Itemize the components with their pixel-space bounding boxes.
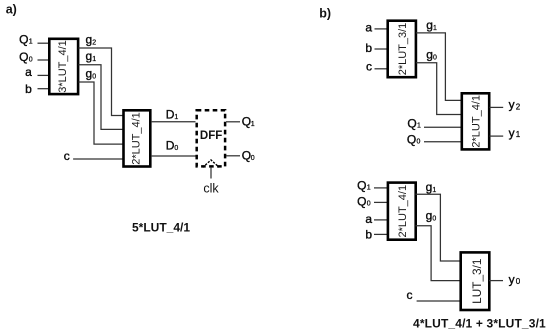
svg-text:a: a [25,65,32,79]
svg-text:c: c [407,288,413,302]
svg-text:g: g [86,33,93,47]
svg-text:2*LUT_4/1: 2*LUT_4/1 [471,95,483,148]
svg-text:Q: Q [357,179,366,193]
svg-text:0: 0 [432,215,436,222]
wire g0 from U1 to U2 pin3 [79,82,123,144]
svg-text:g: g [86,67,93,81]
node g1 (b bottom) [426,180,437,194]
svg-text:0: 0 [433,54,437,61]
wire c to U6 pin3 [417,300,461,302]
svg-text:2*LUT_4/1: 2*LUT_4/1 [130,112,142,165]
svg-text:1: 1 [417,123,421,130]
svg-text:LUT_3/1: LUT_3/1 [470,259,484,304]
wire Q0 to U4 pin4 [424,141,462,143]
LUT block U2 2*LUT_4/1 [124,110,151,166]
wire c to U3 pin3 [375,68,389,70]
wire b to U3 pin2 [375,48,389,50]
svg-text:1: 1 [516,130,521,139]
wire g2 from U1 to U2 pin1 [79,48,123,116]
svg-text:b: b [365,41,372,55]
LUT block U1 3*LUT_4/1 [49,39,78,94]
svg-text:5*LUT_4/1: 5*LUT_4/1 [132,220,190,234]
LUT block U4 2*LUT_4/1 [462,93,489,149]
svg-text:1: 1 [367,185,371,192]
svg-text:c: c [366,59,372,73]
svg-text:1: 1 [92,56,96,63]
node g1 (b top) [426,18,437,32]
svg-text:D: D [166,139,175,153]
wire Q1 to U5 pin1 [374,187,388,189]
svg-text:0: 0 [251,155,255,162]
svg-text:y: y [509,126,515,140]
node Q0 input (b top) [407,132,421,146]
svg-text:b): b) [319,7,331,21]
node Q1 input (b bottom) [357,179,371,193]
svg-text:D: D [166,108,175,122]
svg-text:c: c [64,149,70,163]
wire D0 from U2 to DFF [151,155,196,157]
svg-text:2*LUT_4/1: 2*LUT_4/1 [397,185,409,238]
flip-flop DFF dashed box [197,110,225,166]
wire b to U5 pin4 [374,233,388,235]
svg-text:DFF: DFF [200,130,222,142]
wire g1 from U3 to U4 pin1 [416,33,462,101]
svg-text:1: 1 [251,121,255,128]
wire Q1 out of DFF [226,121,240,123]
svg-text:Q: Q [19,50,28,64]
svg-text:a: a [365,212,372,226]
node D1 [166,108,179,122]
svg-text:1: 1 [174,114,178,121]
node Q1 output (a) [242,114,255,128]
wire clk stem [210,168,212,179]
wire a to U5 pin3 [374,219,388,221]
wire g0 from U5 to U6 pin2 [416,226,461,281]
wire g1 from U1 to U2 pin2 [79,65,123,130]
LUT block U3 2*LUT_3/1 [388,21,416,77]
node Q1 input (b top) [407,116,421,130]
wire a to U1 pin3 [38,74,50,76]
LUT block U5 2*LUT_4/1 [388,183,416,240]
svg-text:Q: Q [357,194,366,208]
node y2 [509,97,521,111]
node g1 [86,49,97,63]
svg-text:4*LUT_4/1 + 3*LUT_3/1: 4*LUT_4/1 + 3*LUT_3/1 [413,317,546,331]
svg-text:g: g [86,49,93,63]
svg-text:b: b [25,82,32,96]
svg-text:g: g [426,18,433,32]
wire b to U1 pin4 [38,88,50,90]
svg-text:0: 0 [174,145,178,152]
node g2 [86,33,97,47]
clock edge notch [203,160,220,167]
node g0 (b top) [426,47,437,61]
svg-text:Q: Q [242,148,251,162]
wire Q1 to U4 pin3 [424,126,462,128]
wire y1 out of U4 [490,135,504,137]
svg-text:2: 2 [92,40,96,47]
wire y0 out of U6 [489,280,503,282]
svg-text:b: b [365,227,372,241]
wire c to U2 pin4 [73,158,123,160]
wire Q1 to U1 pin1 [38,42,50,44]
svg-text:2*LUT_3/1: 2*LUT_3/1 [397,23,409,76]
svg-text:0: 0 [367,200,371,207]
svg-text:Q: Q [407,116,416,130]
svg-text:0: 0 [417,139,421,146]
svg-text:2: 2 [516,102,521,111]
svg-text:g: g [426,180,433,194]
node y1 [509,126,521,140]
svg-text:clk: clk [203,182,219,196]
LUT block U6 LUT_3/1 [461,252,490,310]
wire D1 from U2 to DFF [151,121,196,123]
wire Q0 out of DFF [226,155,240,157]
wire y2 out of U4 [490,106,504,108]
svg-text:Q: Q [407,132,416,146]
node Q0 input (b bottom) [357,194,371,208]
node Q0 output (a) [242,148,255,162]
svg-text:1: 1 [432,187,436,194]
svg-text:Q: Q [19,32,28,46]
svg-text:1: 1 [433,25,437,32]
wire g1 from U5 to U6 pin1 [416,194,461,261]
svg-text:0: 0 [516,277,521,286]
svg-text:Q: Q [242,114,251,128]
svg-text:3*LUT_4/1: 3*LUT_4/1 [57,40,69,93]
svg-text:a: a [365,21,372,35]
svg-text:g: g [426,47,433,61]
node g0 (b bottom) [426,208,437,222]
svg-text:a): a) [6,3,17,17]
svg-text:y: y [509,97,515,111]
wire Q0 to U1 pin2 [38,59,50,61]
wire Q0 to U5 pin2 [374,201,388,203]
node y0 [509,272,521,286]
svg-text:0: 0 [29,56,33,63]
wire g0 from U3 to U4 pin2 [416,63,462,115]
svg-text:1: 1 [29,39,33,46]
node D0 [166,139,179,153]
node g0 [86,67,97,81]
svg-text:g: g [426,208,433,222]
svg-text:0: 0 [92,74,96,81]
wire a to U3 pin1 [375,28,389,30]
svg-text:y: y [509,272,515,286]
